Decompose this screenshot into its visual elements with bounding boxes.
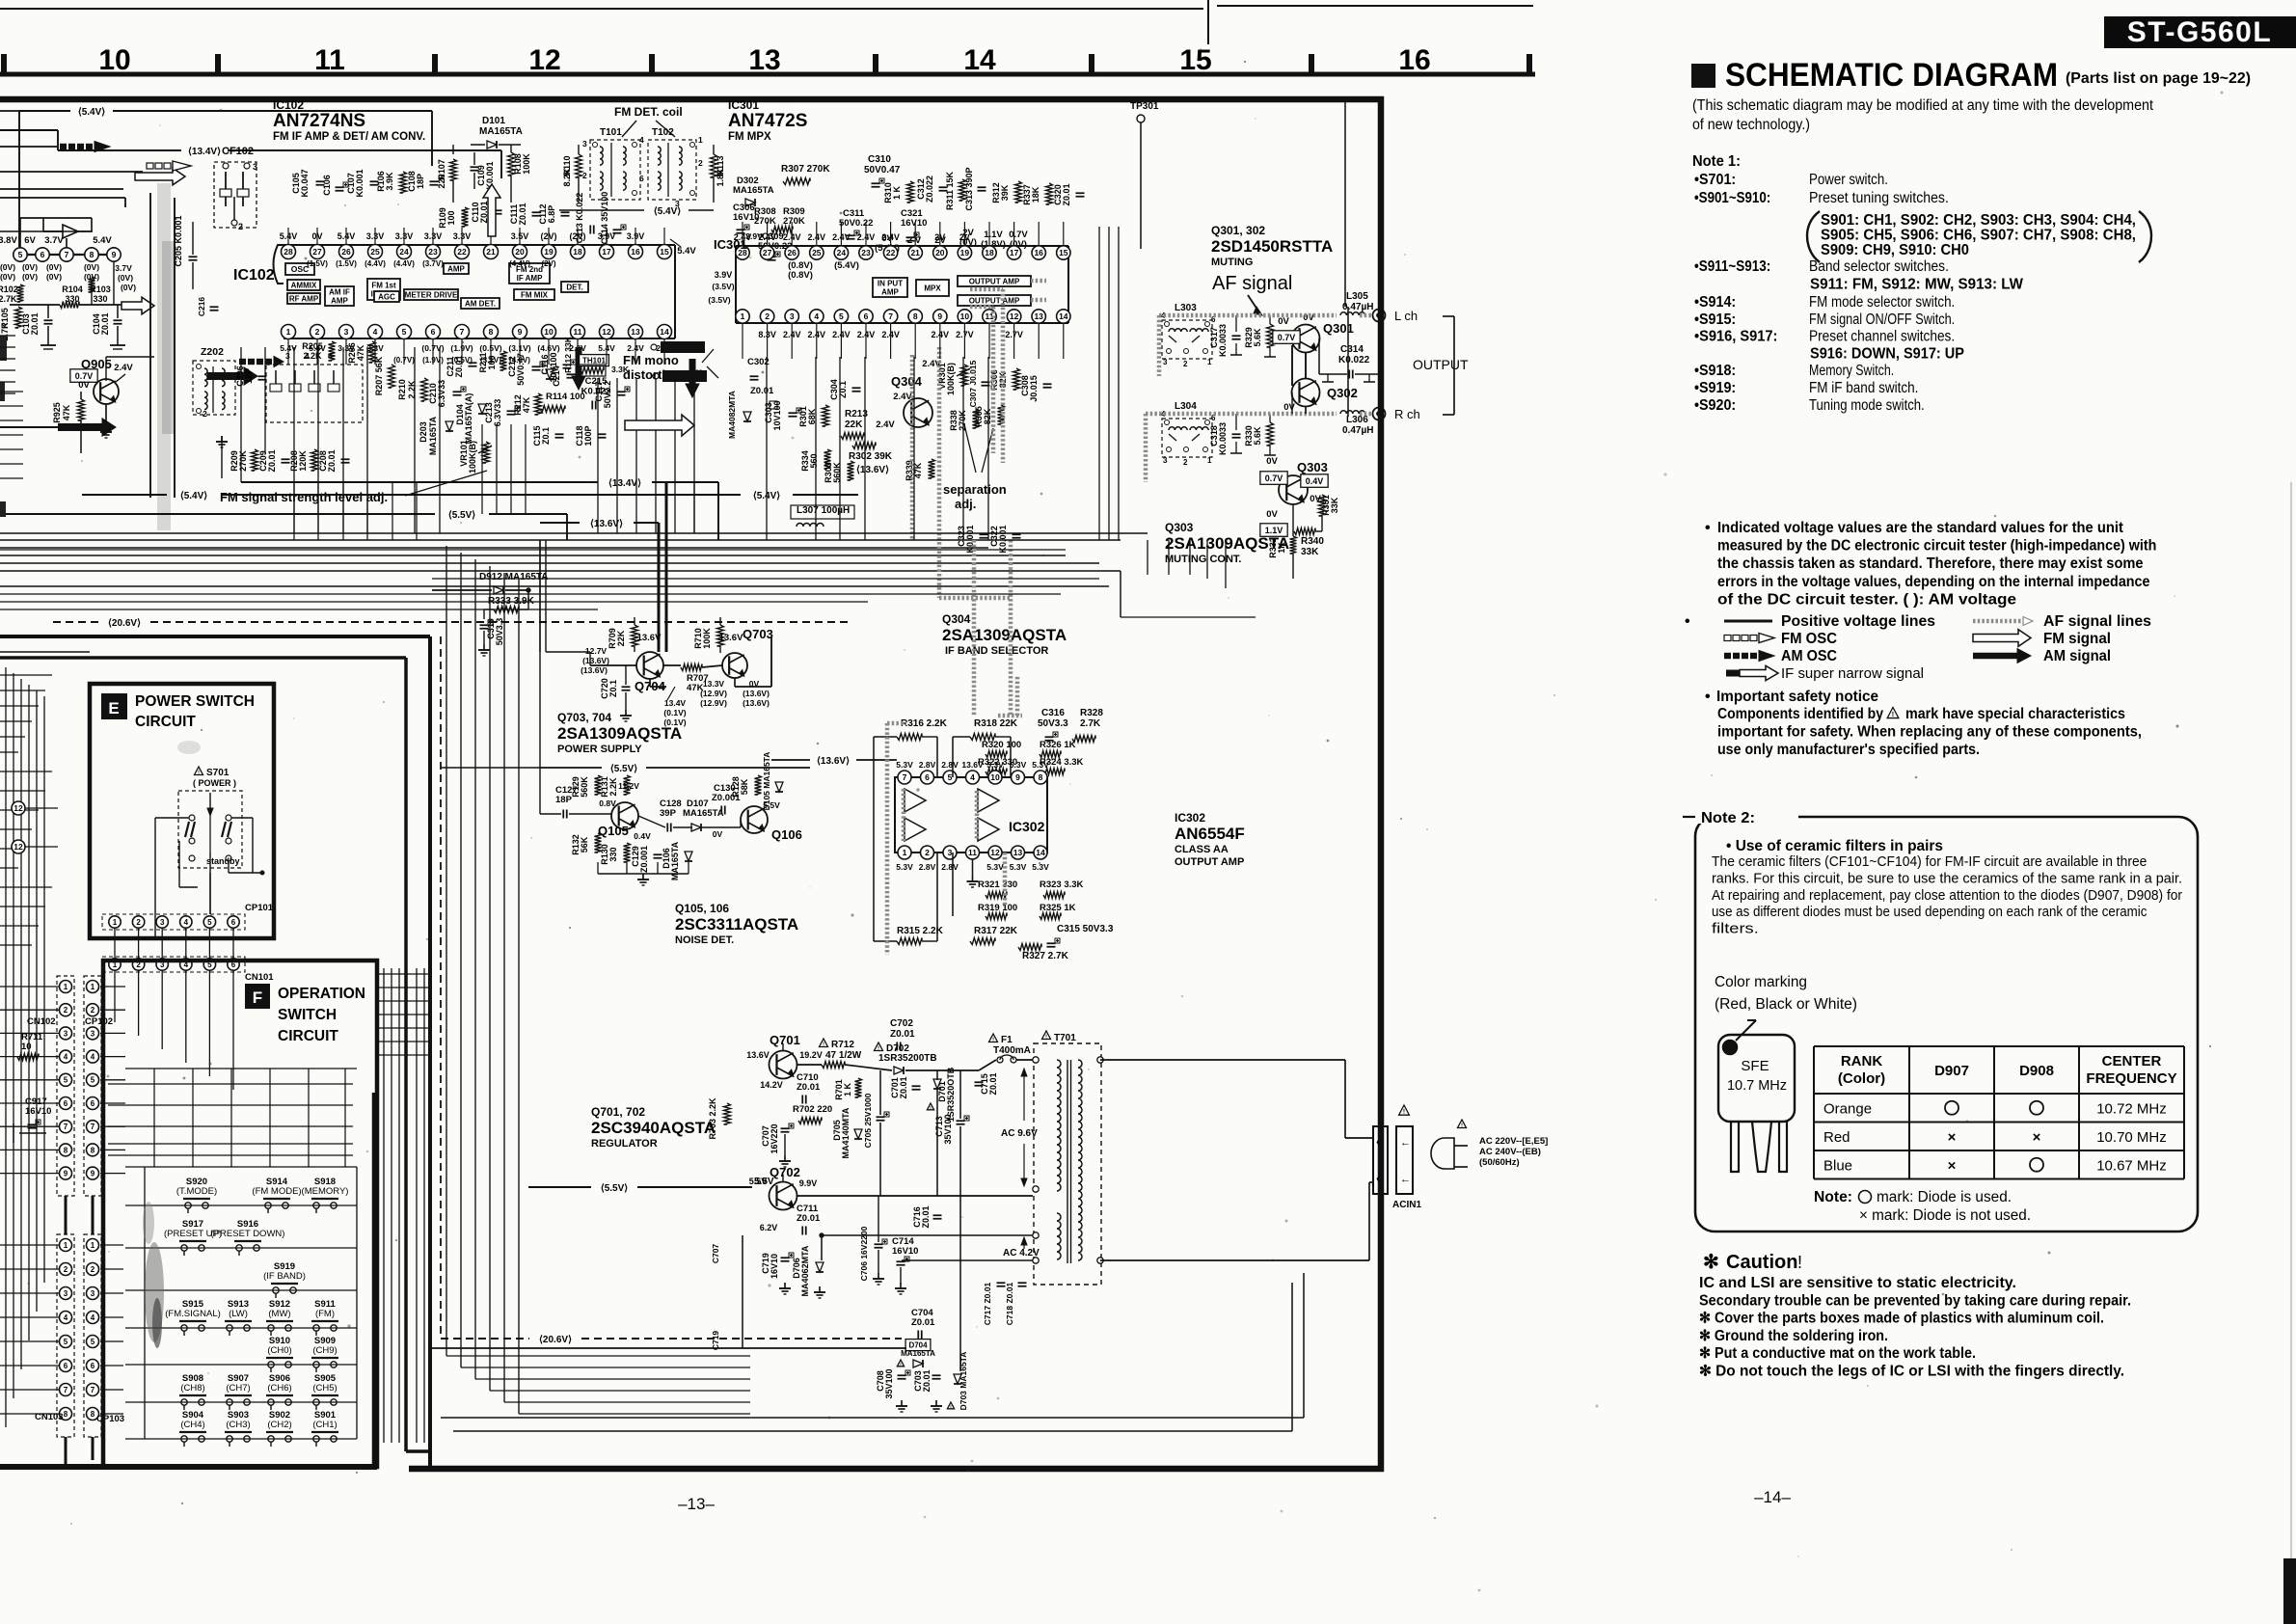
- svg-text:(CH0): (CH0): [267, 1345, 291, 1356]
- svg-text:AM IF: AM IF: [329, 287, 350, 296]
- svg-text:MA4082MTA: MA4082MTA: [727, 391, 737, 439]
- IC302 chip body: [895, 777, 1047, 853]
- inner frame P2 top: [0, 656, 406, 660]
- svg-text:Z0.01: Z0.01: [30, 312, 40, 335]
- svg-text:0V: 0V: [1278, 316, 1289, 327]
- svg-text:•: •: [1685, 613, 1690, 630]
- svg-text:L304: L304: [1175, 401, 1197, 412]
- power rail top wire: [797, 1064, 822, 1066]
- svg-text:4: 4: [64, 1052, 68, 1061]
- svg-text:1: 1: [1207, 456, 1212, 465]
- svg-text:FM signal: FM signal: [2043, 631, 2111, 647]
- svg-text:Q702: Q702: [770, 1165, 800, 1179]
- svg-text:8: 8: [64, 1410, 68, 1419]
- svg-text:0.4V: 0.4V: [634, 831, 651, 841]
- svg-text:!: !: [1045, 1034, 1047, 1040]
- svg-text:3: 3: [64, 1289, 68, 1298]
- svg-text:CIRCUIT: CIRCUIT: [135, 714, 196, 730]
- svg-text:7: 7: [65, 250, 69, 259]
- svg-text:Z202: Z202: [201, 346, 224, 358]
- heading square bullet: [1691, 64, 1715, 88]
- IC301 internal block OUTPUT AMP 2: [958, 295, 1031, 306]
- svg-text:(3.5V): (3.5V): [708, 295, 730, 305]
- svg-text:6: 6: [91, 1099, 95, 1108]
- svg-text:2: 2: [64, 1006, 68, 1015]
- verticals under IC102 right side: [597, 378, 599, 533]
- svg-text:Z0.01: Z0.01: [890, 1029, 915, 1040]
- svg-text:D203: D203: [419, 421, 428, 443]
- svg-text:SFE: SFE: [1741, 1058, 1769, 1074]
- svg-text:(4.4V): (4.4V): [509, 259, 530, 268]
- legend IF super narrow signal: [1726, 670, 1761, 677]
- svg-text:Q701, 702: Q701, 702: [591, 1105, 645, 1119]
- svg-text:R307 270K: R307 270K: [781, 164, 830, 175]
- svg-text:1: 1: [698, 135, 703, 145]
- svg-text:27: 27: [312, 247, 322, 257]
- svg-text:3: 3: [1163, 456, 1168, 465]
- svg-text:✻ Ground the soldering iron.: ✻ Ground the soldering iron.: [1699, 1328, 1888, 1344]
- svg-text:•: •: [1705, 689, 1711, 705]
- AC plug symbol: [1431, 1138, 1454, 1169]
- svg-text:R316 2.2K: R316 2.2K: [901, 718, 948, 729]
- Q905 emitter ground: [105, 404, 107, 426]
- svg-text:5.4V: 5.4V: [93, 235, 112, 246]
- svg-text:S911: FM, S912: MW, S913: LW: S911: FM, S912: MW, S913: LW: [1810, 277, 2023, 293]
- svg-text:12: 12: [528, 44, 560, 76]
- svg-text:(3.5V): (3.5V): [712, 282, 734, 291]
- svg-text:1.8K: 1.8K: [716, 168, 725, 187]
- svg-text:1: 1: [286, 327, 291, 337]
- svg-text:✻ Put a conductive mat on the: ✻ Put a conductive mat on the work table…: [1699, 1345, 1976, 1362]
- svg-text:3: 3: [1163, 358, 1168, 366]
- svg-text:50V0.47: 50V0.47: [516, 353, 526, 386]
- svg-text:0.4V: 0.4V: [1306, 476, 1324, 486]
- svg-text:50V3.3: 50V3.3: [1038, 718, 1068, 729]
- svg-text:⟨5.4V⟩: ⟨5.4V⟩: [654, 206, 681, 217]
- svg-text:T701: T701: [1054, 1033, 1076, 1043]
- svg-text:16: 16: [631, 247, 640, 257]
- svg-text:Z0.01: Z0.01: [750, 386, 774, 396]
- svg-text:CN101: CN101: [245, 972, 274, 983]
- svg-text:16V10: 16V10: [892, 1246, 918, 1257]
- svg-text:AN7274NS: AN7274NS: [273, 111, 365, 131]
- svg-text:6.8P: 6.8P: [547, 205, 556, 224]
- svg-text:Z0.022: Z0.022: [925, 176, 934, 203]
- svg-text:AGC: AGC: [378, 292, 395, 301]
- svg-text:3: 3: [64, 1029, 68, 1038]
- svg-text:IC and LSI are sensitive to st: IC and LSI are sensitive to static elect…: [1699, 1275, 2016, 1291]
- svg-text:(0V): (0V): [22, 262, 38, 272]
- svg-text:25: 25: [812, 248, 822, 257]
- IC301 pin top stubs: [742, 222, 743, 246]
- svg-text:S701: S701: [206, 768, 230, 778]
- svg-text:13.6V: 13.6V: [961, 760, 984, 770]
- note1 brace right: [2139, 211, 2151, 262]
- svg-text:1: 1: [741, 311, 745, 321]
- fuse F1 T400mA: [989, 1034, 998, 1042]
- svg-text:2SA1309AQSTA: 2SA1309AQSTA: [942, 626, 1067, 644]
- svg-text:47 1/2W: 47 1/2W: [825, 1050, 862, 1061]
- svg-text:( POWER ): ( POWER ): [193, 778, 236, 788]
- svg-text:•S914:: •S914:: [1694, 294, 1736, 311]
- svg-text:IC301: IC301: [728, 98, 759, 112]
- svg-text:3: 3: [91, 1029, 95, 1038]
- AM OSC arrow into pin1: [239, 359, 246, 365]
- IC301 internal block OUTPUT AMP 1: [958, 276, 1031, 286]
- svg-text:7: 7: [91, 1386, 95, 1394]
- svg-text:REGULATOR: REGULATOR: [591, 1138, 658, 1150]
- svg-text:Preset tuning switches.: Preset tuning switches.: [1809, 190, 1949, 206]
- svg-text:R703 2.2K: R703 2.2K: [708, 1097, 717, 1140]
- svg-text:(5.4V): (5.4V): [834, 260, 859, 271]
- svg-text:⟨5.4V⟩: ⟨5.4V⟩: [78, 107, 105, 118]
- resistor R107 220: [450, 159, 457, 180]
- svg-text:T101: T101: [600, 127, 622, 138]
- IC101 pin row (pins 5-9): [19, 247, 21, 262]
- svg-text:(MEMORY): (MEMORY): [302, 1186, 349, 1197]
- svg-text:0.8V: 0.8V: [599, 798, 616, 808]
- IC102 internal block FM MIX: [514, 289, 554, 300]
- transistor Q105: [611, 802, 638, 829]
- svg-text:12.7V: 12.7V: [585, 646, 608, 656]
- svg-text:(12.9V): (12.9V): [700, 689, 727, 698]
- svg-text:2SA1309AQSTA: 2SA1309AQSTA: [1165, 534, 1289, 553]
- IC102 chip body: [274, 245, 284, 284]
- svg-text:1: 1: [113, 918, 118, 927]
- svg-text:560: 560: [809, 453, 819, 468]
- svg-text:5: 5: [91, 1338, 95, 1346]
- svg-text:R311 15K: R311 15K: [945, 171, 955, 210]
- svg-text:OUTPUT AMP: OUTPUT AMP: [969, 296, 1020, 305]
- svg-text:2: 2: [91, 1265, 95, 1274]
- svg-text:9: 9: [937, 311, 942, 321]
- svg-text:(0V): (0V): [22, 272, 38, 282]
- svg-text:CIRCUIT: CIRCUIT: [278, 1028, 338, 1044]
- svg-text:(13.6V): (13.6V): [743, 689, 770, 698]
- resistor R110 8.2K: [576, 154, 582, 177]
- svg-text:–14–: –14–: [1754, 1488, 1791, 1506]
- svg-text:100P: 100P: [583, 425, 593, 446]
- svg-text:10: 10: [21, 1042, 32, 1052]
- AM signal solid arrow left: [58, 423, 104, 431]
- svg-text:(CH7): (CH7): [226, 1383, 250, 1394]
- test point block TP501: [661, 341, 705, 353]
- svg-text:4: 4: [184, 918, 189, 927]
- IC102 internal block FM 2nd IF AMP: [509, 263, 550, 284]
- svg-text:←: ←: [1400, 1137, 1411, 1149]
- svg-text:5.3V: 5.3V: [1032, 862, 1049, 872]
- SFE ceramic filter drawing: [1718, 1035, 1795, 1122]
- E box label square: [101, 693, 127, 719]
- transistor Q905: [94, 379, 119, 404]
- svg-text:RANK: RANK: [1841, 1053, 1882, 1069]
- svg-text:FREQUENCY: FREQUENCY: [2086, 1070, 2176, 1087]
- svg-text:Note 1:: Note 1:: [1692, 153, 1741, 170]
- ruler scale line: [0, 72, 1535, 77]
- svg-text:Tuning mode switch.: Tuning mode switch.: [1809, 397, 1925, 414]
- model banner ST-G560L: [2104, 16, 2296, 48]
- svg-text:R328: R328: [1080, 708, 1103, 718]
- svg-text:•S911~S913:: •S911~S913:: [1694, 258, 1770, 275]
- svg-text:10: 10: [544, 327, 554, 337]
- svg-text:(CH2): (CH2): [267, 1420, 291, 1430]
- svg-text:R205: R205: [302, 341, 323, 351]
- svg-text:D101: D101: [482, 116, 505, 126]
- top left corner wires: [0, 110, 19, 112]
- svg-text:MPX: MPX: [924, 284, 941, 292]
- svg-text:Q304: Q304: [942, 612, 971, 626]
- svg-text:8: 8: [1039, 772, 1043, 782]
- svg-text:Note 2:: Note 2:: [1701, 810, 1755, 826]
- svg-text:2.4V: 2.4V: [893, 392, 912, 402]
- svg-text:0V: 0V: [78, 380, 90, 391]
- svg-text:R317 22K: R317 22K: [974, 926, 1018, 936]
- svg-text:8: 8: [64, 1146, 68, 1154]
- svg-text:Color marking: Color marking: [1715, 974, 1807, 990]
- svg-text:2: 2: [315, 327, 320, 337]
- Q303 feed lines: [1121, 616, 1256, 618]
- svg-text:R327 2.7K: R327 2.7K: [1022, 951, 1069, 961]
- svg-text:270K: 270K: [958, 410, 967, 431]
- transistor Q702: [770, 1182, 797, 1210]
- svg-text:(50/60Hz): (50/60Hz): [1479, 1157, 1520, 1168]
- transistor Q701: [770, 1051, 797, 1079]
- svg-text:•S701:: •S701:: [1694, 172, 1736, 188]
- svg-text:0V: 0V: [1266, 509, 1278, 520]
- IC102 pin drop wires: [287, 338, 289, 365]
- svg-text:OUTPUT: OUTPUT: [1413, 357, 1469, 372]
- svg-text:(IF BAND): (IF BAND): [263, 1271, 306, 1282]
- mid horizontal connectors: [240, 347, 242, 482]
- svg-text:3.9V: 3.9V: [715, 270, 733, 280]
- svg-text:1 K: 1 K: [892, 186, 902, 201]
- switch matrix wires: [125, 1204, 357, 1206]
- svg-text:R325 1K: R325 1K: [1040, 903, 1076, 913]
- svg-text:6: 6: [64, 1362, 68, 1370]
- svg-text:!: !: [1797, 1253, 1802, 1272]
- svg-text:6.3V33: 6.3V33: [437, 380, 446, 408]
- svg-text:39K: 39K: [1000, 184, 1010, 201]
- svg-text:IC302: IC302: [1175, 811, 1205, 825]
- svg-text:R318 22K: R318 22K: [974, 718, 1018, 729]
- vertical wires IC301 to bus: [766, 357, 768, 540]
- svg-text:24: 24: [399, 247, 409, 257]
- svg-text:7: 7: [91, 1123, 95, 1131]
- svg-text:100K(B): 100K(B): [946, 363, 956, 395]
- svg-text:(CH4): (CH4): [180, 1420, 204, 1430]
- svg-text:•: •: [1705, 520, 1711, 536]
- svg-text:Q703, 704: Q703, 704: [557, 711, 611, 724]
- diode D702 1SR35200TB: [875, 1042, 883, 1051]
- regulator bottom wire: [430, 1347, 906, 1349]
- svg-text:0.47µH: 0.47µH: [1342, 425, 1373, 436]
- svg-text:2.8V: 2.8V: [941, 760, 959, 770]
- circled pin 12 lower: [12, 840, 25, 853]
- svg-text:C315 50V3.3: C315 50V3.3: [1057, 924, 1114, 934]
- svg-text:C106: C106: [322, 175, 332, 196]
- F box label square: [245, 984, 270, 1009]
- svg-text:Q106: Q106: [771, 827, 802, 842]
- svg-text:7: 7: [64, 1123, 68, 1131]
- 5.5V line extension left: [441, 767, 540, 769]
- svg-text:MUTING CONT.: MUTING CONT.: [1165, 554, 1241, 565]
- svg-text:21: 21: [910, 248, 920, 257]
- IC301 internal block INPUT AMP: [873, 278, 907, 297]
- svg-text:3.7V: 3.7V: [115, 263, 132, 273]
- svg-text:S916: DOWN, S917: UP: S916: DOWN, S917: UP: [1810, 346, 1964, 363]
- svg-text:5: 5: [64, 1338, 68, 1346]
- svg-text:2.7K: 2.7K: [1080, 718, 1101, 729]
- svg-text:•S916, S917:: •S916, S917:: [1694, 329, 1777, 345]
- svg-text:CP101: CP101: [245, 903, 274, 913]
- white arrow FM into smudge: [122, 297, 154, 314]
- IC301 top pin row: [736, 246, 749, 259]
- svg-text:R104: R104: [62, 284, 83, 294]
- svg-text:AC 240V--(EB): AC 240V--(EB): [1479, 1147, 1541, 1157]
- svg-text:13.6V: 13.6V: [719, 633, 743, 643]
- svg-text:1 K: 1 K: [843, 1083, 852, 1097]
- svg-text:K0.001: K0.001: [355, 169, 365, 197]
- ruler tick 4: [649, 54, 655, 74]
- smudge band: [157, 183, 171, 530]
- svg-text:IF AMP: IF AMP: [517, 274, 543, 283]
- svg-text:Z0.001: Z0.001: [639, 846, 649, 873]
- svg-text:5.5V: 5.5V: [749, 1177, 768, 1186]
- ground rail AM section: [221, 436, 223, 478]
- svg-text:←: ←: [1400, 1174, 1411, 1185]
- svg-text:L306: L306: [1346, 415, 1368, 425]
- svg-text:R323 3.3K: R323 3.3K: [1040, 880, 1084, 890]
- CN101 pin risers into F box: [114, 970, 116, 1022]
- svg-text:5.4V: 5.4V: [677, 246, 696, 257]
- svg-text:4: 4: [639, 135, 644, 145]
- wire row y316: [10, 304, 60, 306]
- svg-text:(1.5V): (1.5V): [307, 259, 328, 268]
- svg-text:AMP: AMP: [881, 287, 899, 296]
- long verticals beside smudge: [149, 193, 151, 498]
- svg-text:Q301: Q301: [1323, 321, 1354, 336]
- svg-text:(0V): (0V): [0, 262, 15, 272]
- svg-text:MA4140MTA: MA4140MTA: [841, 1107, 851, 1158]
- svg-text:16V10: 16V10: [733, 212, 759, 223]
- svg-text:standby: standby: [206, 856, 240, 866]
- svg-text:15: 15: [1179, 44, 1211, 76]
- svg-text:8: 8: [91, 1410, 95, 1419]
- svg-text:26: 26: [341, 247, 351, 257]
- svg-text:16: 16: [1034, 248, 1043, 257]
- svg-text:27: 27: [763, 248, 772, 257]
- svg-text:!: !: [992, 1037, 994, 1042]
- svg-text:6.3V33: 6.3V33: [493, 399, 502, 427]
- schematic outer frame top edge: [0, 96, 1384, 103]
- svg-text:important for safety. When r: important for safety. When replacing any…: [1717, 724, 2142, 741]
- svg-text:C718 Z0.01: C718 Z0.01: [1005, 1283, 1014, 1326]
- svg-text:ST-G560L: ST-G560L: [2127, 16, 2272, 48]
- svg-text:L ch: L ch: [1394, 309, 1418, 323]
- resistor R113 1.8K: [711, 154, 717, 177]
- circled pin 12 upper: [12, 801, 25, 815]
- svg-text:Secondary trouble can be preve: Secondary trouble can be prevented by ta…: [1699, 1292, 2131, 1309]
- svg-text:CF102: CF102: [222, 146, 254, 157]
- svg-text:R ch: R ch: [1394, 407, 1420, 421]
- svg-text:5: 5: [207, 918, 212, 927]
- svg-text:5.6K: 5.6K: [1253, 328, 1262, 347]
- svg-text:22: 22: [457, 247, 467, 257]
- svg-text:OUTPUT AMP: OUTPUT AMP: [969, 277, 1020, 285]
- svg-text:✻ Cover the parts boxes made o: ✻ Cover the parts boxes made of plastics…: [1699, 1311, 2104, 1327]
- svg-text:13: 13: [748, 44, 780, 76]
- svg-text:100: 100: [446, 210, 456, 225]
- svg-text:mark have special characterist: mark have special characteristics: [1905, 706, 2125, 722]
- svg-text:⟨13.6V⟩: ⟨13.6V⟩: [590, 519, 623, 529]
- svg-text:10.7 MHz: 10.7 MHz: [1727, 1078, 1787, 1094]
- svg-text:Q105: Q105: [598, 824, 629, 838]
- rank table: [1814, 1045, 2184, 1047]
- ruler tick 2: [215, 54, 221, 74]
- svg-text:4: 4: [970, 772, 975, 782]
- svg-text:(0V): (0V): [121, 283, 136, 292]
- svg-text:4: 4: [373, 327, 378, 337]
- svg-text:errors in the voltage values,: errors in the voltage values, depending …: [1717, 574, 2150, 590]
- svg-text:8: 8: [913, 311, 918, 321]
- svg-text:330: 330: [93, 294, 107, 304]
- svg-text:0.7V: 0.7V: [1265, 474, 1283, 483]
- svg-text:12: 12: [14, 803, 23, 813]
- svg-text:(CH9): (CH9): [312, 1345, 337, 1356]
- svg-text:50V2.2: 50V2.2: [603, 381, 612, 409]
- left edge horizontal stubs upper: [0, 674, 52, 676]
- svg-text:MA165TA: MA165TA: [479, 126, 523, 137]
- svg-text:26: 26: [787, 248, 797, 257]
- svg-text:5.6K: 5.6K: [1253, 426, 1262, 446]
- svg-text:use as different diodes must b: use as different diodes must be used dep…: [1712, 904, 2147, 920]
- left edge wires top: [0, 335, 15, 337]
- svg-text:10.72 MHz: 10.72 MHz: [2096, 1100, 2167, 1117]
- svg-text:AC 9.6V: AC 9.6V: [1001, 1128, 1038, 1139]
- svg-text:5.3V: 5.3V: [986, 760, 1004, 770]
- svg-text:IF BAND SELECTOR: IF BAND SELECTOR: [945, 645, 1048, 657]
- svg-text:Q303: Q303: [1165, 521, 1194, 534]
- inner frame P2 bottom: [406, 1449, 430, 1453]
- svg-text:(13.6V): (13.6V): [581, 665, 608, 675]
- svg-text:11: 11: [314, 44, 345, 76]
- svg-text:•S915:: •S915:: [1694, 311, 1736, 328]
- svg-text:6V: 6V: [24, 235, 36, 246]
- wires output network: [1291, 345, 1293, 386]
- svg-text:(This schematic diagram may be: (This schematic diagram may be modified …: [1692, 97, 2154, 114]
- svg-text:19.2V: 19.2V: [799, 1050, 823, 1060]
- svg-text:1SR35200TB: 1SR35200TB: [878, 1053, 937, 1064]
- IC301 area risers: [1147, 540, 1148, 575]
- switch matrix feed horizontals: [108, 1083, 353, 1085]
- svg-text:13.6V: 13.6V: [746, 1050, 770, 1060]
- svg-text:8.2K: 8.2K: [562, 168, 572, 187]
- svg-text:2: 2: [238, 222, 243, 231]
- svg-text:⟨20.6V⟩: ⟨20.6V⟩: [539, 1335, 572, 1345]
- ruler tick 3: [432, 54, 438, 74]
- svg-text:S909: CH9, S910: CH0: S909: CH9, S910: CH0: [1821, 242, 1969, 258]
- svg-text:2SC3311AQSTA: 2SC3311AQSTA: [675, 915, 798, 934]
- svg-text:R302 39K: R302 39K: [849, 451, 893, 462]
- svg-text:C216: C216: [197, 297, 206, 317]
- svg-text:5.3V: 5.3V: [986, 862, 1004, 872]
- svg-text:12: 12: [990, 848, 1000, 857]
- svg-text:(1.5V): (1.5V): [336, 259, 357, 268]
- long horizontals y band extra: [0, 549, 1066, 551]
- svg-text:47K: 47K: [62, 404, 71, 420]
- svg-text:19: 19: [960, 248, 970, 257]
- svg-text:Z0.01: Z0.01: [518, 203, 527, 225]
